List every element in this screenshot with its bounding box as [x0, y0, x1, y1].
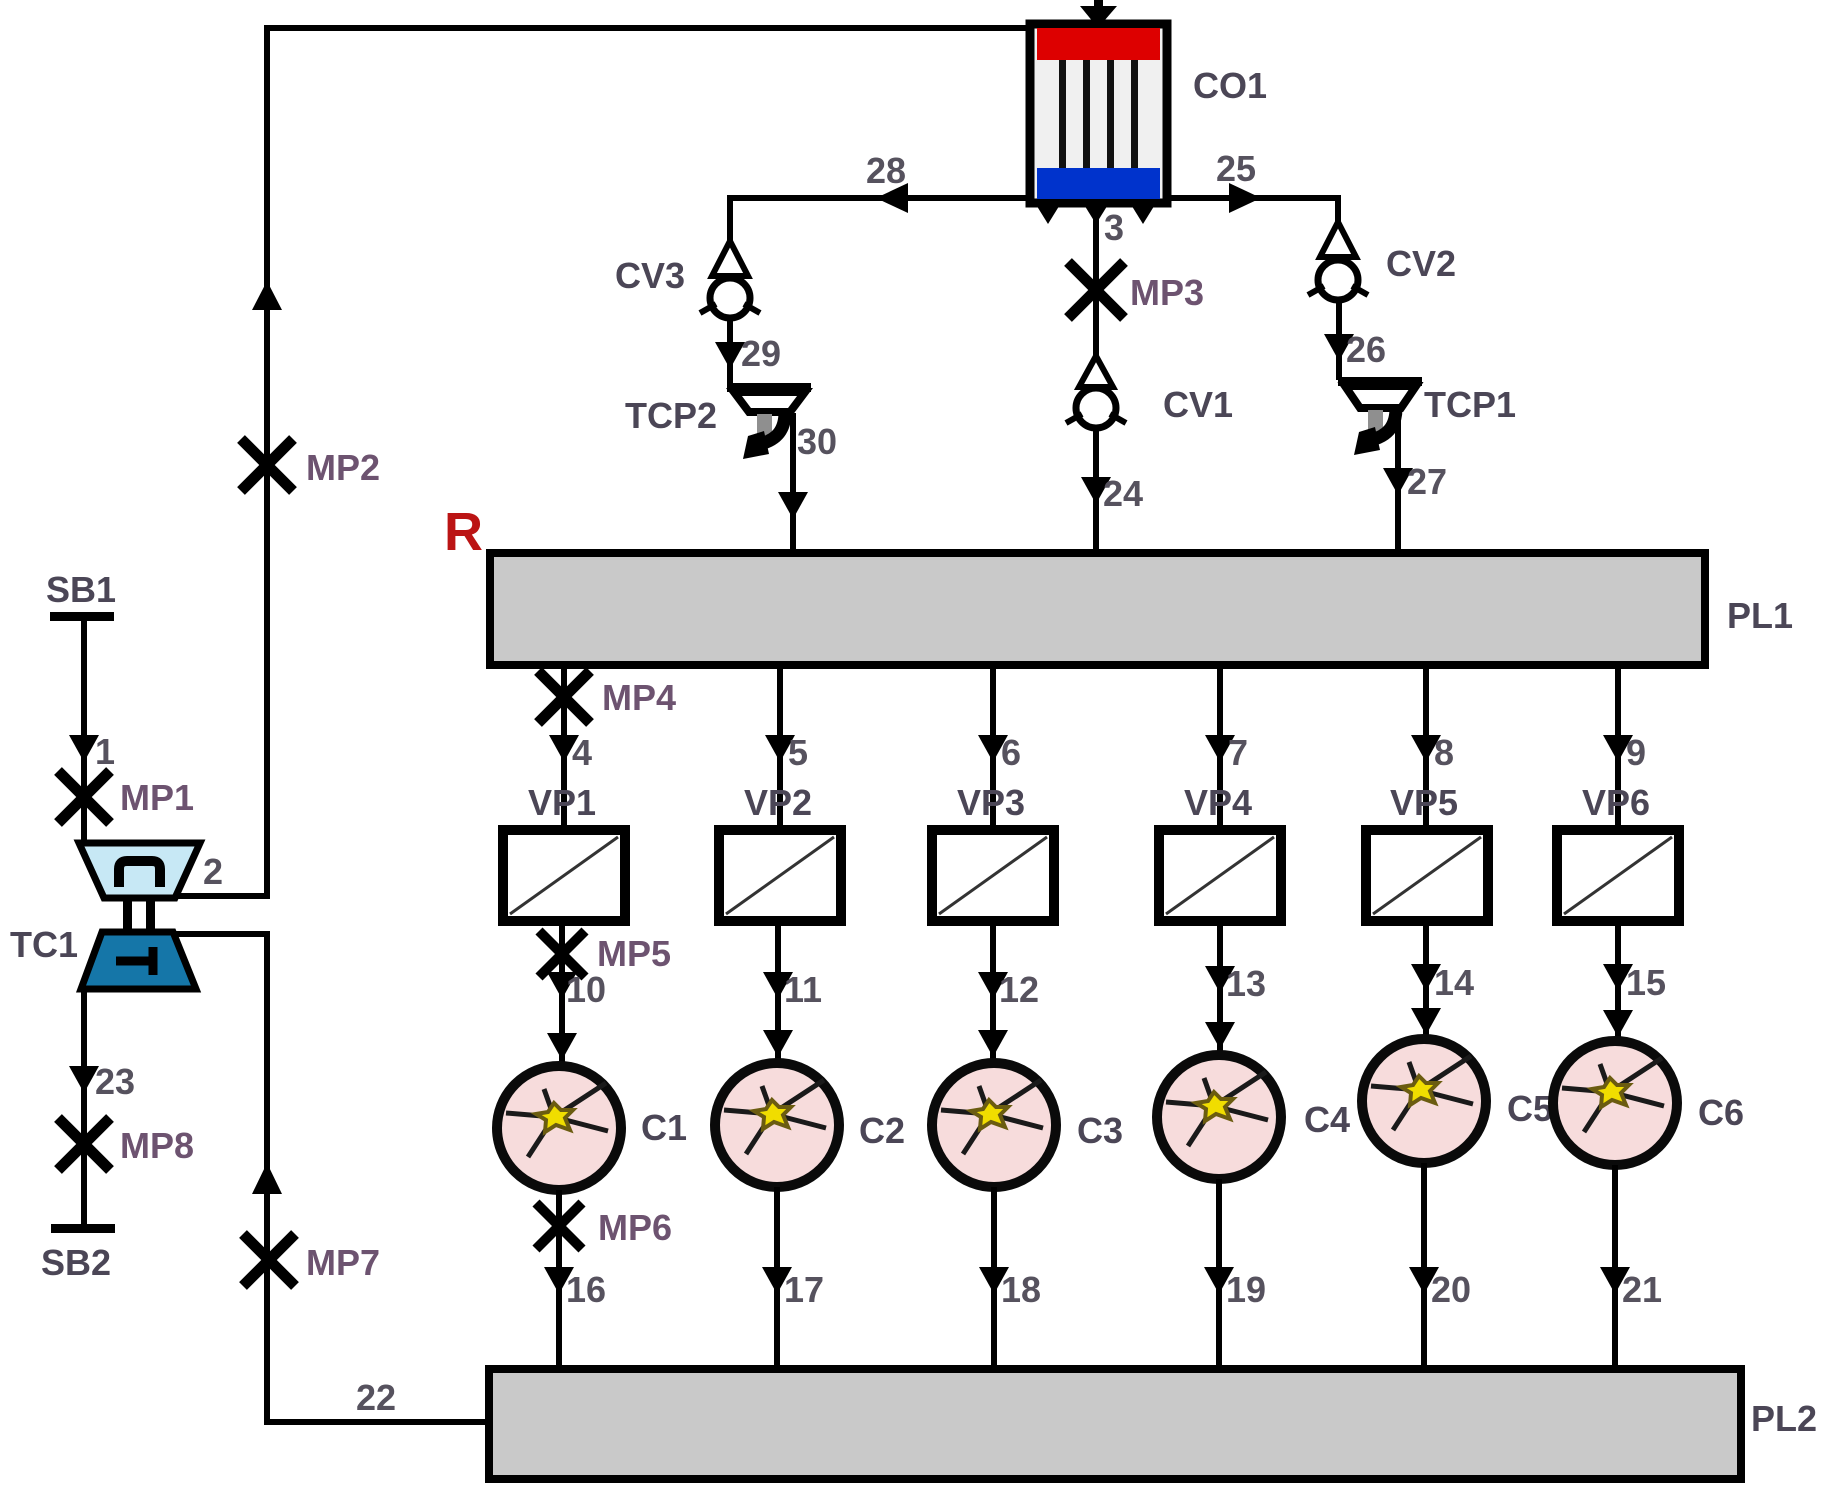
wire left riser upper (line 2 up to top)	[264, 25, 270, 896]
wire VP5 to C5	[1423, 921, 1429, 1036]
arrow down line 30	[778, 492, 808, 519]
arrow down line 9	[1603, 735, 1633, 762]
svg-text:PL1: PL1	[1727, 595, 1793, 636]
arrow up on lower riser	[252, 1163, 282, 1194]
svg-text:MP4: MP4	[602, 677, 676, 718]
wire line 2 horizontal from compressor outlet	[170, 893, 270, 899]
valve MP3	[1068, 262, 1124, 318]
injection pump VP5	[1366, 830, 1488, 921]
wire C1 to PL2	[556, 1190, 562, 1371]
wire VP1 to C1	[559, 921, 565, 1062]
plenum PL1	[490, 553, 1705, 665]
svg-text:MP2: MP2	[306, 447, 380, 488]
svg-text:C3: C3	[1077, 1110, 1123, 1151]
arrow down line 21	[1600, 1267, 1630, 1294]
svg-text:MP3: MP3	[1130, 272, 1204, 313]
arrow into C6	[1603, 1010, 1633, 1037]
valve MP1	[58, 771, 110, 823]
wire C2 to PL2	[774, 1187, 780, 1371]
wire TCP2 outlet down to PL1	[790, 413, 796, 556]
svg-text:23: 23	[95, 1061, 135, 1102]
terminal SB1	[50, 612, 114, 621]
svg-text:SB1: SB1	[46, 569, 116, 610]
injection pump VP3	[932, 830, 1054, 921]
wire line 22 bottom horizontal to PL2	[264, 1419, 490, 1425]
injection pump VP4	[1159, 830, 1281, 921]
cylinder C1	[497, 1066, 621, 1190]
arrow down line 12	[978, 972, 1008, 999]
wire PL1 to VP1	[561, 665, 567, 832]
wire PL1 to VP6	[1615, 665, 1621, 832]
svg-text:21: 21	[1622, 1269, 1662, 1310]
arrow left on line 28	[876, 183, 908, 213]
wire CV1 down to PL1	[1093, 428, 1099, 556]
wire PL1 to VP3	[990, 665, 996, 832]
svg-text:9: 9	[1626, 732, 1646, 773]
valve MP2	[241, 439, 293, 491]
compressor inner mark	[119, 861, 160, 887]
turbine TCP1	[1338, 377, 1422, 455]
arrow down line 7	[1205, 735, 1235, 762]
svg-text:18: 18	[1001, 1269, 1041, 1310]
cylinder C2	[715, 1063, 839, 1187]
svg-text:PL2: PL2	[1751, 1398, 1817, 1439]
svg-text:C6: C6	[1698, 1092, 1744, 1133]
injection pump VP2	[719, 830, 841, 921]
wire TCP1 outlet down to PL1	[1395, 409, 1401, 556]
valve MP8	[58, 1118, 110, 1170]
wire VP4 to C4	[1217, 921, 1223, 1052]
svg-text:3: 3	[1104, 207, 1124, 248]
svg-text:CV1: CV1	[1163, 384, 1233, 425]
svg-text:CO1: CO1	[1193, 65, 1267, 106]
wire PL1 to VP2	[777, 665, 783, 832]
wire VP2 to C2	[775, 921, 781, 1060]
svg-text:TCP2: TCP2	[625, 395, 717, 436]
svg-text:11: 11	[784, 969, 822, 1010]
cylinder C4	[1157, 1055, 1281, 1179]
svg-text:TCP1: TCP1	[1424, 384, 1516, 425]
arrow into C5	[1411, 1008, 1441, 1035]
svg-text:C2: C2	[859, 1110, 905, 1151]
wire turbine outlet down	[81, 986, 87, 1230]
valve MP7	[243, 1234, 295, 1286]
arrow into CO1 top	[1094, 0, 1103, 10]
svg-text:17: 17	[784, 1269, 824, 1310]
valve MP6	[536, 1203, 582, 1249]
turbine TCP2	[727, 383, 811, 459]
wire line 3 CO1 to MP3	[1093, 203, 1099, 360]
cylinder C3	[932, 1063, 1056, 1187]
arrow down line 23	[69, 1066, 99, 1093]
svg-text:24: 24	[1103, 473, 1143, 514]
svg-text:8: 8	[1434, 732, 1454, 773]
arrow right on line 25	[1229, 183, 1261, 213]
arrow down line 11	[763, 972, 793, 999]
arrow into C4	[1205, 1022, 1235, 1049]
svg-text:R: R	[444, 502, 483, 562]
plenum PL2	[489, 1369, 1741, 1479]
wire top horizontal from left riser to CO1	[264, 25, 1034, 31]
wire C5 to PL2	[1421, 1163, 1427, 1371]
turbine inner mark	[116, 947, 153, 975]
svg-text:VP1: VP1	[528, 782, 596, 823]
arrow into C1	[547, 1033, 577, 1060]
compressor TC1 upper	[79, 843, 200, 898]
check valve CV2	[1308, 222, 1368, 300]
valve MP4	[538, 671, 590, 723]
svg-text:20: 20	[1431, 1269, 1471, 1310]
svg-text:12: 12	[999, 969, 1039, 1010]
svg-text:29: 29	[741, 333, 781, 374]
arrow down line 16	[544, 1267, 574, 1294]
terminal SB2	[51, 1224, 115, 1233]
svg-text:25: 25	[1216, 148, 1256, 189]
arrow into C3	[978, 1030, 1008, 1057]
wire C4 to PL2	[1216, 1179, 1222, 1371]
cylinder C5	[1362, 1039, 1486, 1163]
svg-text:MP7: MP7	[306, 1242, 380, 1283]
svg-text:C1: C1	[641, 1107, 687, 1148]
arrow down line 15	[1603, 964, 1633, 991]
shaft coupling	[123, 896, 132, 934]
svg-text:C4: C4	[1304, 1099, 1350, 1140]
wire VP3 to C3	[990, 921, 996, 1060]
wire VP6 to C6	[1615, 921, 1621, 1038]
svg-text:4: 4	[572, 732, 592, 773]
svg-text:19: 19	[1226, 1269, 1266, 1310]
svg-text:VP5: VP5	[1390, 782, 1458, 823]
arrow down line 29	[715, 342, 745, 369]
injection pump VP1	[503, 830, 625, 921]
svg-text:SB2: SB2	[41, 1242, 111, 1283]
arrow down line 17	[762, 1267, 792, 1294]
svg-text:6: 6	[1001, 732, 1021, 773]
svg-text:13: 13	[1226, 963, 1266, 1004]
arrow down line 20	[1409, 1267, 1439, 1294]
check valve CV1	[1066, 356, 1126, 428]
svg-text:22: 22	[356, 1377, 396, 1418]
arrow down line 8	[1411, 735, 1441, 762]
wire down to CV2	[1335, 195, 1341, 226]
injection pump VP6	[1557, 830, 1679, 921]
cylinder C6	[1553, 1041, 1677, 1165]
svg-text:VP2: VP2	[744, 782, 812, 823]
wire left riser lower (turbine feed)	[264, 934, 270, 1425]
valve MP5	[539, 931, 585, 977]
wire CV3 to TCP2	[727, 318, 733, 386]
svg-text:30: 30	[797, 421, 837, 462]
wire turbine inlet horizontal	[168, 931, 270, 937]
wire 25 horizontal	[1164, 195, 1340, 201]
arrow down line 4	[549, 735, 579, 762]
svg-text:28: 28	[866, 150, 906, 191]
svg-text:TC1: TC1	[10, 924, 78, 965]
svg-text:MP5: MP5	[597, 933, 671, 974]
svg-text:VP3: VP3	[957, 782, 1025, 823]
check valve CV3	[700, 241, 760, 318]
arrow down line 10	[547, 972, 577, 999]
svg-text:10: 10	[566, 969, 606, 1010]
arrow up on left riser	[252, 281, 282, 310]
svg-text:5: 5	[788, 732, 808, 773]
arrow down line 26	[1324, 334, 1354, 361]
CO1 bottom arrowheads	[1035, 203, 1061, 224]
svg-text:VP6: VP6	[1582, 782, 1650, 823]
arrow down line 27	[1383, 468, 1413, 495]
svg-text:CV2: CV2	[1386, 243, 1456, 284]
wire C6 to PL2	[1612, 1165, 1618, 1371]
svg-text:7: 7	[1228, 732, 1248, 773]
svg-text:CV3: CV3	[615, 255, 685, 296]
svg-text:1: 1	[95, 731, 115, 772]
wire CV2 to TCP1	[1336, 300, 1342, 380]
arrow down line 19	[1204, 1267, 1234, 1294]
wire C3 to PL2	[991, 1187, 997, 1371]
wire down to CV3	[727, 195, 733, 244]
svg-text:2: 2	[203, 851, 223, 892]
svg-text:26: 26	[1346, 329, 1386, 370]
svg-text:VP4: VP4	[1184, 782, 1252, 823]
turbine TC1 lower	[81, 932, 196, 989]
arrow down line 14	[1411, 964, 1441, 991]
svg-text:14: 14	[1434, 962, 1474, 1003]
svg-text:16: 16	[566, 1269, 606, 1310]
arrow down line 5	[765, 735, 795, 762]
arrow into C2	[763, 1030, 793, 1057]
arrow down line 24	[1081, 477, 1111, 504]
arrow down line 13	[1205, 966, 1235, 993]
arrow down line 1	[69, 735, 99, 762]
svg-text:27: 27	[1407, 461, 1447, 502]
svg-text:MP6: MP6	[598, 1207, 672, 1248]
heat exchanger CO1	[1030, 24, 1167, 203]
svg-text:MP8: MP8	[120, 1125, 194, 1166]
svg-text:C5: C5	[1507, 1088, 1553, 1129]
wire PL1 to VP4	[1217, 665, 1223, 832]
arrow down line 6	[978, 735, 1008, 762]
wire SB1 down to MP1	[81, 616, 87, 846]
wire 28 horizontal	[730, 195, 1032, 201]
wire PL1 to VP5	[1423, 665, 1429, 832]
svg-text:15: 15	[1626, 962, 1666, 1003]
arrow down line 18	[979, 1267, 1009, 1294]
svg-text:MP1: MP1	[120, 777, 194, 818]
